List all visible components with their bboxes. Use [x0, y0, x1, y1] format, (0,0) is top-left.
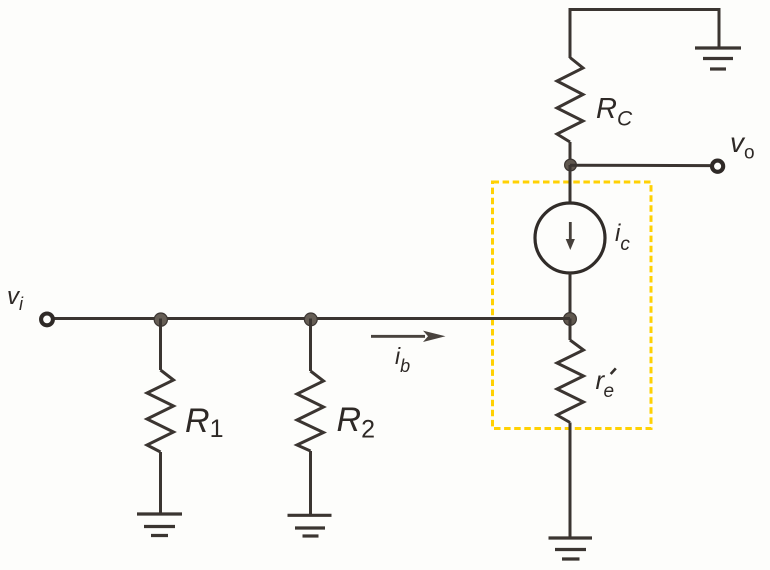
wire current source to base node: [569, 273, 572, 314]
svg-text:ib: ib: [395, 343, 410, 376]
svg-text:e: e: [604, 381, 615, 402]
wire R2 to ground: [309, 451, 312, 515]
resistor R2: [297, 371, 324, 451]
node at R2: [304, 313, 317, 326]
node base: [564, 313, 577, 326]
node at R1: [154, 313, 167, 326]
svg-text:R1: R1: [185, 402, 223, 443]
wire node to R1: [159, 319, 162, 371]
ground (top right): [695, 48, 741, 69]
svg-text:vo: vo: [730, 127, 755, 164]
ib current arrow: [371, 331, 446, 342]
ground (bottom, below re'): [549, 538, 593, 559]
resistor RC: [557, 58, 583, 143]
node collector: [565, 159, 577, 171]
terminal vo: [712, 161, 723, 172]
svg-text:vi: vi: [7, 283, 24, 314]
dashed transistor model box: [493, 182, 652, 429]
wire input (vi to base node): [53, 317, 571, 320]
resistor re': [557, 340, 584, 423]
label re': [596, 365, 616, 402]
svg-text:R2: R2: [337, 401, 375, 444]
current source ic (circle): [535, 203, 605, 273]
wire node to R2: [309, 319, 312, 372]
wire R1 to ground: [159, 452, 162, 514]
ground (below R2): [288, 515, 332, 536]
svg-text:RC: RC: [596, 93, 633, 131]
wire top loop (collector supply to ground): [570, 10, 719, 59]
resistor R1: [147, 370, 174, 452]
terminal vi: [41, 314, 53, 326]
ground (below R1): [137, 514, 182, 536]
wire re' to ground: [569, 423, 572, 539]
wire RC to collector node: [569, 142, 572, 165]
wire collector to vo: [570, 164, 710, 167]
current source arrow: [566, 222, 575, 250]
svg-text:ic: ic: [615, 220, 630, 255]
wire base node to re: [569, 319, 572, 341]
wire collector node into box: [569, 165, 572, 204]
